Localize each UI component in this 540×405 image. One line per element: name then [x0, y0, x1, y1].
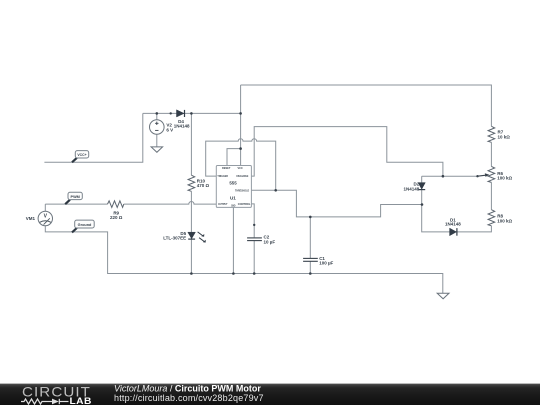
svg-text:THRESHOLD: THRESHOLD [235, 188, 249, 192]
svg-text:555: 555 [229, 181, 237, 186]
junction D4 cathode / R10 [190, 112, 193, 115]
svg-text:1N4148: 1N4148 [174, 124, 190, 129]
ground symbol under V2 [151, 147, 163, 152]
wire C1 bottom lead [309, 261, 311, 273]
wire R10 bottom to D5 [190, 191, 192, 232]
junction pot wiper terminal [476, 175, 478, 177]
svg-text:PWM: PWM [71, 195, 80, 199]
wire V2 top stem [156, 113, 158, 119]
wire D2 cathode down through D1 to R8 bottom [422, 189, 492, 232]
junction dots [156, 112, 479, 275]
svg-text:VCC+: VCC+ [77, 153, 86, 157]
svg-text:U1: U1 [230, 195, 236, 200]
junction VCC vertical [239, 112, 242, 115]
wire PWM net / 555 OUTPUT with hop [45, 202, 216, 205]
resistor R7 10k [488, 126, 495, 142]
junction C1 top [309, 216, 312, 219]
logo resistor+diode glyph [21, 399, 69, 404]
wire C1 top lead [309, 217, 311, 258]
diode D2 1N4148 [418, 183, 425, 190]
voltage source V2 [150, 120, 165, 135]
capacitor C2 10uF [247, 238, 262, 241]
svg-text:220 Ω: 220 Ω [110, 215, 123, 220]
wire 555 CONTROL to C2 [251, 204, 254, 238]
svg-text:1N4148: 1N4148 [404, 186, 420, 191]
wire 555 DISCHARGE to pot wiper [251, 127, 443, 177]
op-amp/timer U1 555 box [216, 166, 251, 208]
resistor R9 220 [108, 201, 124, 208]
svg-text:100 kΩ: 100 kΩ [497, 218, 512, 223]
wire VCC vertical to 555 VCC pin [240, 85, 242, 166]
junction D2 bottom node [421, 203, 424, 206]
svg-text:10 µF: 10 µF [264, 239, 276, 244]
flag Ground [72, 220, 94, 232]
svg-text:1N4148: 1N4148 [445, 222, 461, 227]
wire D4 anode/cathode net (VCC node) [143, 112, 241, 114]
wire 555 GND pin to bus [232, 207, 234, 273]
svg-text:Ground: Ground [78, 223, 92, 227]
svg-text:470 Ω: 470 Ω [197, 183, 210, 188]
potentiometer R6 100k [488, 166, 495, 182]
wire pot wiper net to D2 top [422, 175, 478, 177]
voltmeter VM1 [38, 211, 52, 225]
flag VCC+ [72, 151, 89, 163]
wire R6 to R8 [490, 182, 492, 209]
junction wiper/discharge elbow [442, 175, 445, 178]
wire V2 bottom stem to ground [156, 134, 158, 147]
svg-text:DISCHARGE: DISCHARGE [236, 174, 248, 178]
svg-text:TRIGGER: TRIGGER [217, 174, 228, 178]
wire R7 to R6 [490, 142, 492, 166]
wire D5 cathode to ground bus [190, 239, 192, 273]
svg-text:6 V: 6 V [166, 127, 173, 132]
svg-text:OUTPUT: OUTPUT [218, 202, 228, 206]
svg-text:100 kΩ: 100 kΩ [497, 176, 512, 181]
flag PWM [65, 192, 82, 204]
footer bar [0, 384, 540, 405]
wire VCC flag net [44, 113, 142, 162]
junction bus C2 [253, 272, 256, 275]
junction V2 top [156, 112, 159, 115]
wire C2 bottom to bus [253, 241, 255, 274]
junction CONTROL/C2 terminal [253, 224, 255, 226]
diode D1 1N4148 [450, 228, 457, 236]
diode D4 1N4148 [177, 110, 185, 117]
svg-text:VCC: VCC [238, 167, 243, 170]
svg-text:LTL-307EE: LTL-307EE [163, 236, 186, 241]
wire top rail to R7 [241, 85, 492, 126]
svg-text:RESET: RESET [222, 166, 231, 170]
junction THRESHOLD/trigger elbow [274, 189, 277, 192]
resistor R10 470 [188, 175, 195, 191]
junction bus GND pin [232, 272, 235, 275]
resistor R8 100k [488, 210, 495, 226]
junction bus C1 [309, 272, 312, 275]
ground symbol bottom right [437, 293, 449, 299]
potentiometer R6 wiper arrow [478, 175, 486, 176]
svg-text:http://circuitlab.com/cvv28b2q: http://circuitlab.com/cvv28b2qe79v7 [114, 393, 264, 403]
wire D2 top lead [421, 176, 423, 182]
capacitor C1 100uF [303, 258, 318, 261]
junction RESET/VCC [239, 147, 242, 150]
junction D4 anode terminal [170, 112, 172, 114]
svg-text:100 µF: 100 µF [319, 261, 333, 266]
wire VM1 top stem [44, 204, 46, 211]
svg-text:LAB: LAB [70, 396, 92, 405]
wire R10 top lead [190, 113, 192, 175]
svg-text:GND: GND [231, 204, 235, 207]
svg-text:VM1: VM1 [26, 216, 36, 221]
wire ground net: VM1 bottom, bus, to ground symbol [45, 226, 443, 294]
wire 555 TRIGGER to THRESHOLD with hops [206, 139, 276, 191]
svg-text:CONTROL: CONTROL [238, 202, 251, 206]
svg-text:10 kΩ: 10 kΩ [498, 134, 511, 139]
junction bus D5 [190, 272, 193, 275]
LED D5 LTL-307EE [188, 232, 206, 243]
wire 555 RESET to VCC [227, 149, 241, 166]
wire 555 THRESHOLD staircase to D2 node [251, 190, 422, 217]
